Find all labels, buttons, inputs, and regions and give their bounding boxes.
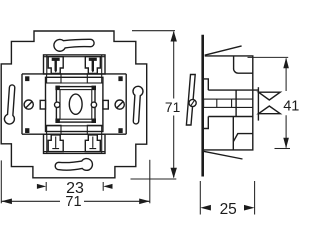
front view: left mounting screw [24, 100, 33, 109]
front view: left fixing tab [40, 100, 45, 109]
side view: claw lever outside wall [186, 75, 195, 126]
front view: rocker ellipse [69, 94, 82, 114]
dimension: vertical 71 line [173, 32, 175, 178]
front view: top keyhole slot [54, 39, 94, 51]
front view: corner black square BL [55, 119, 60, 124]
front view: bottom left terminal tower [48, 135, 63, 152]
side view: wall tab bottom [204, 117, 209, 129]
dimension: 23 tick left [45, 182, 47, 191]
front view: corner black square TL [55, 86, 60, 91]
side view: lower claw triangle [259, 106, 281, 114]
dimension: 25 extension left [199, 181, 201, 215]
front view: bottom left terminal T mark [52, 137, 59, 149]
svg-text:23: 23 [66, 180, 84, 197]
side view: top claw diagonal [205, 46, 242, 55]
dimension: 23 arrow left [37, 185, 40, 187]
front view: right mounting screw [115, 100, 124, 109]
front view: top terminal carrier [44, 55, 106, 74]
dimension: 41 extension bottom [275, 148, 291, 150]
front view: crossband right edge [125, 74, 127, 134]
side view: screw shaft lines [232, 99, 254, 107]
front view: top left terminal T mark [52, 58, 60, 73]
side view: inner rect B [204, 99, 232, 107]
side view: tab2/B divider [216, 99, 218, 107]
front view: right pivot circle [91, 102, 96, 107]
dimension: 25 arrow left [200, 205, 211, 211]
side view: claw lever screw circle [189, 99, 196, 106]
front view: top right terminal foot [87, 74, 101, 83]
dimension: 41 line [285, 59, 287, 148]
front view: outer black square band BR [118, 128, 122, 133]
dimension: vertical 71 extension top [132, 30, 175, 32]
dimension: bottom 71 line [1, 200, 150, 202]
dimension: bottom 71 arrow left [1, 199, 12, 205]
front view: top left terminal foot [47, 74, 61, 83]
front view: central square inner [60, 90, 92, 120]
front view: corner black square BR [92, 119, 97, 124]
side view: upper claw triangle [259, 92, 281, 100]
dimension: 23 tick right [102, 182, 104, 191]
front view: bottom right terminal foot [87, 125, 101, 134]
dimension: 25 arrow right [244, 205, 255, 211]
side view: body outline rectangle [204, 56, 253, 150]
front view: left bean slot [4, 85, 14, 124]
dimension: vertical 71 arrow down [171, 168, 177, 179]
svg-text:25: 25 [220, 201, 237, 218]
front view: right fixing tab [103, 100, 108, 109]
front view: outer black square band TL [25, 76, 29, 81]
side view: block A right edge [235, 90, 237, 116]
dimension: 25 extension right [254, 181, 256, 215]
front view: top left terminal tower [48, 57, 63, 74]
front view: support ring outline [1, 31, 147, 178]
front view: bottom right terminal tower [85, 135, 100, 152]
side view: bottom inner block with chamfer [233, 117, 253, 150]
front view: bottom left terminal foot [47, 125, 61, 134]
front view: right bean slot [133, 86, 143, 124]
front view: frame inner rail lines [46, 83, 103, 126]
side view: wall tab top [204, 79, 209, 90]
side view: claw bar vertical [257, 87, 259, 120]
dimension: 23 arrow right [110, 185, 113, 187]
dimension: bottom 71 extension right [149, 160, 151, 204]
dimension: vertical 71 extension bottom [131, 178, 177, 180]
dimension: bottom 71 arrow right [139, 199, 150, 205]
front view: outer black square band TR [118, 76, 122, 81]
svg-text:41: 41 [283, 99, 299, 115]
front view: top right terminal T mark [89, 58, 97, 73]
front view: left pivot circle [55, 102, 60, 107]
front view: crossband horizontal rails [22, 74, 126, 134]
front view: bottom right terminal T mark [89, 137, 96, 149]
svg-text:71: 71 [165, 100, 180, 115]
dimension: 41 extension top [248, 56, 289, 58]
front view: crossband left edge [21, 74, 23, 134]
front view: bottom keyhole slot [55, 159, 92, 171]
front view: top right terminal tower [85, 57, 100, 74]
side view: block A top and bottom lines [208, 90, 258, 116]
side view: bottom claw diagonal [204, 151, 243, 159]
front view: corner black square TR [92, 86, 97, 91]
side view: top inner block with rounded corner [234, 56, 253, 73]
dimension: 41 arrow up [283, 58, 289, 69]
side view: wall plate thick line [201, 35, 204, 177]
dimension: vertical 71 arrow up [171, 31, 177, 42]
front view: outer black square band BL [25, 128, 29, 133]
front view: bottom terminal carrier [44, 134, 106, 153]
front view: central square outer [56, 87, 95, 123]
dimension: 41 arrow down [283, 138, 289, 149]
dimension: bottom 71 extension left [0, 160, 2, 203]
front view: housing frame [46, 77, 103, 131]
